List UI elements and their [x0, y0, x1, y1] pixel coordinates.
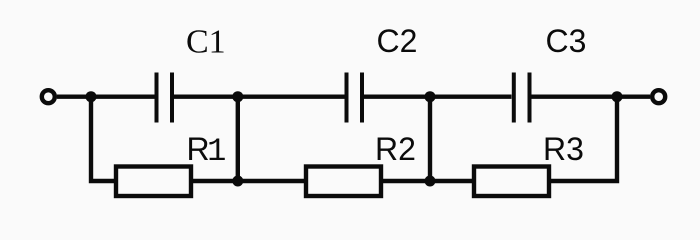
- resistor R3: [474, 167, 549, 197]
- node A: [86, 91, 97, 102]
- wire bottom segment 3: [383, 179, 430, 183]
- node C bottom: [425, 176, 436, 187]
- capacitor C1: [157, 73, 173, 123]
- node B top: [232, 91, 243, 102]
- resistor R1: [116, 167, 191, 197]
- svg-text:R1: R1: [187, 131, 227, 170]
- capacitor C3: [514, 73, 530, 123]
- svg-text:C3: C3: [546, 23, 587, 59]
- wire bottom segment 4: [430, 179, 474, 183]
- wire bottom segment 5 + right drop: [551, 97, 617, 181]
- capacitor C2: [347, 73, 363, 123]
- wire mid drop C: [428, 97, 432, 181]
- wire bottom segment 1: [193, 179, 238, 183]
- wire top segment 3: [364, 94, 512, 98]
- wire top segment 2: [174, 94, 345, 98]
- node C top: [425, 91, 436, 102]
- wire mid drop B: [236, 97, 240, 181]
- terminal right: [652, 90, 665, 103]
- node B bottom: [232, 176, 243, 187]
- wire bottom segment 2: [238, 179, 306, 183]
- svg-text:R2: R2: [375, 131, 416, 167]
- wire top segment 1: [57, 94, 155, 98]
- wire left drop: [91, 97, 115, 181]
- resistor R2: [306, 167, 381, 197]
- terminal left: [42, 90, 55, 103]
- wire top segment 4: [532, 94, 651, 98]
- svg-text:R3: R3: [543, 131, 584, 167]
- node D: [612, 91, 623, 102]
- svg-text:C1: C1: [186, 23, 226, 60]
- svg-text:C2: C2: [377, 23, 418, 59]
